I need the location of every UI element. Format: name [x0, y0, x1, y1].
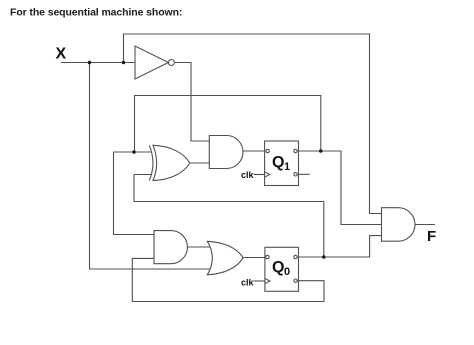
svg-text:1: 1 — [284, 161, 290, 173]
svg-text:clk: clk — [241, 170, 255, 180]
svg-text:clk: clk — [241, 277, 255, 287]
svg-text:F: F — [427, 228, 436, 245]
svg-text:For the sequential machine sho: For the sequential machine shown: — [10, 6, 182, 18]
svg-text:Q: Q — [272, 154, 284, 171]
svg-text:Q: Q — [272, 259, 284, 276]
svg-text:0: 0 — [284, 266, 290, 278]
svg-text:X: X — [56, 46, 67, 63]
